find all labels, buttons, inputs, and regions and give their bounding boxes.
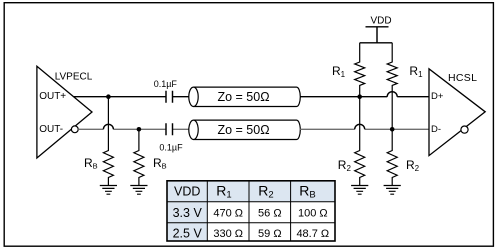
ground under RB2 — [130, 186, 147, 195]
svg-text:D+: D+ — [431, 91, 444, 102]
resistor R2b (right) — [387, 129, 419, 185]
power VDD — [360, 16, 393, 43]
ground under RB1 — [100, 186, 117, 195]
inversion bubble on OUT- — [71, 126, 78, 133]
svg-text:Zo = 50Ω: Zo = 50Ω — [217, 90, 269, 104]
svg-text:OUT-: OUT- — [39, 124, 63, 135]
wire TL1 to HCSL D+ (hop over right chain) — [300, 96, 429, 98]
svg-text:330 Ω: 330 Ω — [213, 228, 243, 240]
svg-text:56 Ω: 56 Ω — [258, 208, 282, 220]
svg-text:Zo = 50Ω: Zo = 50Ω — [217, 123, 269, 137]
wire OUT+ from U1 to C1 — [74, 96, 166, 98]
svg-text:3.3 V: 3.3 V — [173, 206, 203, 220]
node C junction dot D+/R1a — [357, 94, 362, 99]
svg-text:D-: D- — [431, 124, 441, 135]
resistor R1b (right) — [387, 43, 423, 130]
svg-text:470 Ω: 470 Ω — [213, 208, 243, 220]
svg-text:LVPECL: LVPECL — [55, 72, 93, 83]
capacitor C2 0.1uF — [159, 123, 183, 152]
resistor RB2 — [134, 129, 167, 185]
svg-text:0.1µF: 0.1µF — [154, 79, 178, 89]
svg-text:100 Ω: 100 Ω — [298, 208, 328, 220]
wire hop D+ over R1b chain — [387, 92, 397, 97]
wire hop D- over R1a chain — [355, 124, 365, 129]
capacitor C1 0.1uF — [154, 79, 178, 103]
svg-text:0.1µF: 0.1µF — [159, 143, 183, 153]
node D junction dot D-/R1b — [390, 127, 395, 132]
wire C2 to TL2 — [173, 128, 190, 130]
op-amp U2 HCSL receiver — [429, 69, 485, 156]
node A junction dot OUT+/RB1 — [106, 94, 111, 99]
ground under R2a — [351, 186, 368, 195]
svg-text:OUT+: OUT+ — [39, 91, 66, 102]
svg-text:2.5 V: 2.5 V — [173, 226, 203, 240]
wire TL2 to HCSL D- (hop over left chain) — [300, 128, 429, 130]
node B junction dot OUT-/RB2 — [137, 127, 142, 132]
svg-text:VDD: VDD — [370, 16, 391, 27]
svg-text:59 Ω: 59 Ω — [258, 228, 282, 240]
wire C1 to TL1 — [173, 96, 190, 98]
table of resistor values — [167, 181, 335, 241]
op-amp U1 LVPECL driver — [37, 66, 93, 158]
transmission line TL2 Zo=50 — [189, 120, 301, 139]
resistor R1a (left) — [332, 43, 365, 97]
svg-text:HCSL: HCSL — [448, 72, 477, 84]
resistor R2a (left) — [338, 97, 365, 186]
inversion bubble on HCSL lower slope — [461, 126, 468, 133]
resistor RB1 — [84, 97, 113, 186]
svg-text:VDD: VDD — [174, 184, 200, 198]
wire OUT- from bubble to C2 (hop over RB1 vertical) — [78, 128, 166, 130]
transmission line TL1 Zo=50 — [189, 87, 301, 106]
svg-text:48.7 Ω: 48.7 Ω — [296, 228, 329, 240]
wire hop OUT- over RB1 — [103, 124, 113, 129]
ground under R2b — [384, 186, 401, 195]
